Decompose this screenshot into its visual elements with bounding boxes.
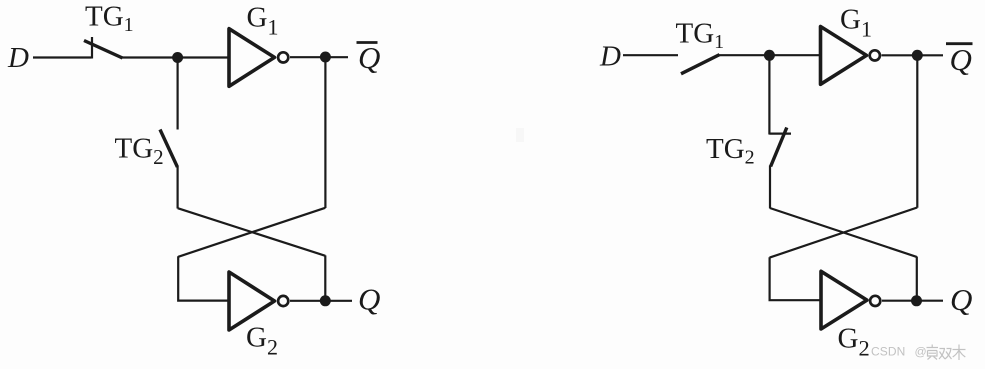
inverter G1 triangle (right) <box>821 27 867 85</box>
inverter G2 triangle (right) <box>821 271 867 329</box>
node dot Q (right) <box>911 295 922 306</box>
switch TG2 blade (right, closed) <box>771 128 787 167</box>
label Qbar overline (right) <box>946 42 973 45</box>
svg-text:Q: Q <box>358 282 380 317</box>
switch TG1 blade (left, closed) <box>84 41 123 59</box>
wire G1 output to Qbar (right) <box>882 54 944 56</box>
wire drop to Q node (right) <box>916 257 918 302</box>
wire drop to Q node (left) <box>324 255 326 301</box>
inverter G1 triangle (left) <box>229 29 275 87</box>
node dot Qbar (left) <box>320 52 331 63</box>
node dot Qbar (right) <box>912 50 923 61</box>
cross wire A: left-top to right-bottom (left circuit) <box>178 208 326 256</box>
watermark glyph 木 <box>953 345 966 361</box>
inverter G1 bubble (left) <box>278 52 288 62</box>
watermark glyph 双 <box>939 349 952 360</box>
wire G2 output to Q (right) <box>882 300 943 302</box>
wire TG1 to G1 input (right) <box>718 54 822 56</box>
inverter G2 bubble (right) <box>870 296 880 306</box>
wire D to TG1 (left) <box>33 56 92 58</box>
switch TG2 contact tick (right) <box>769 133 791 135</box>
switch TG1 blade (right, open) <box>681 55 720 74</box>
svg-text:Q: Q <box>950 282 972 317</box>
wire G1 output to Qbar (left) <box>290 56 348 58</box>
wire drop to G2 input (right) <box>770 257 822 300</box>
watermark glyph 寅 <box>927 345 939 360</box>
svg-text:@: @ <box>915 345 927 359</box>
wire Qbar down to cross (left) <box>324 60 326 208</box>
wire TG2 down to cross (left) <box>177 167 179 209</box>
wire TG1 to G1 input (left) <box>121 56 230 58</box>
wire junction down to TG2 (right) <box>768 58 770 135</box>
inverter G2 triangle (left) <box>229 272 275 330</box>
svg-text:CSDN: CSDN <box>871 345 905 359</box>
cross wire A: left-top to right-bottom (right circuit) <box>770 208 917 257</box>
switch TG2 blade (left, open) <box>160 130 177 168</box>
svg-text:Q: Q <box>950 42 972 77</box>
inverter G2 bubble (left) <box>278 296 288 306</box>
node dot Q (left) <box>320 295 331 306</box>
inverter G1 bubble (right) <box>870 50 880 60</box>
svg-text:Q: Q <box>358 40 380 75</box>
wire TG2 down to cross (right) <box>769 166 771 209</box>
junction node dot (left, D node) <box>172 52 183 63</box>
wire drop to G2 input (left) <box>178 256 229 300</box>
label Qbar overline (left) <box>357 41 378 44</box>
svg-text:D: D <box>599 41 621 73</box>
svg-text:D: D <box>7 42 29 74</box>
wire Qbar down to cross (right) <box>916 58 918 208</box>
switch TG1 contact post (left) <box>91 37 93 59</box>
junction node dot (right, D node) <box>764 50 775 61</box>
wire G2 output to Q (left) <box>290 300 352 302</box>
wire D to TG1 (right) <box>623 54 678 56</box>
wire junction down to TG2 (left) <box>177 60 179 130</box>
cross wire B: right-top to left-bottom (left circuit) <box>178 208 325 257</box>
cross wire B: right-top to left-bottom (right circuit) <box>770 208 918 258</box>
